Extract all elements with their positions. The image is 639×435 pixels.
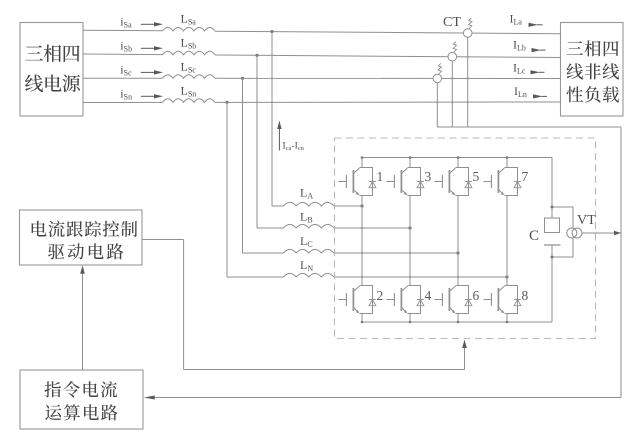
- capacitor C (DC link): [544, 218, 561, 245]
- inductor LSn: [163, 99, 216, 103]
- svg-text:7: 7: [522, 169, 529, 184]
- wire: phase n tap vertical: [226, 102, 228, 277]
- IGBT switch 6 with antiparallel diode: [435, 286, 480, 314]
- wire: leg 3 middle: [457, 196, 459, 286]
- wire: VT output to signal bus: [582, 231, 621, 235]
- label ILn with arrow: [514, 84, 547, 99]
- voltage transducer VT: [567, 228, 582, 238]
- wire: phase c line, inductor to load: [215, 77, 561, 79]
- inductor LSc: [163, 75, 216, 79]
- node: tap junction on phase n: [225, 101, 228, 104]
- node: tap junction on phase b: [255, 54, 258, 57]
- label LA: [300, 186, 313, 201]
- node: tap junction on phase c: [241, 77, 244, 80]
- label iSn with arrow: [120, 86, 163, 101]
- node: leg 2 rail junctions: [409, 156, 412, 323]
- wire: leg 1 bottom stub: [361, 314, 363, 323]
- wire: phase n line, source to inductor: [83, 101, 163, 103]
- wire: phase c tap vertical: [242, 78, 244, 253]
- box: three-phase four-wire nonlinear load (三相四线非线性负载): [561, 23, 624, 117]
- wire: gate drive into converter with arrow: [462, 340, 467, 370]
- node: leg 3 midpoint junction: [456, 251, 459, 254]
- node: leg 4 midpoint junction: [505, 275, 508, 278]
- node: leg 1 rail junctions: [361, 156, 364, 323]
- wire: feedback line into command circuit: [144, 396, 621, 400]
- wire: drive output along bottom: [184, 369, 465, 371]
- label iSc with arrow: [120, 62, 163, 77]
- svg-text:5: 5: [473, 169, 480, 184]
- wire: DC top rail: [362, 157, 552, 159]
- label iSb with arrow: [120, 38, 163, 53]
- wire: leg 1 top stub: [361, 158, 363, 168]
- node: leg 1 midpoint junction: [360, 204, 363, 207]
- wire: phase b tap vertical: [256, 55, 258, 228]
- wire: filter row 2 to bridge leg 2: [334, 227, 410, 229]
- label VT: [577, 213, 596, 228]
- wire: phase b tap to filter inductor: [257, 227, 284, 229]
- wire: CT c secondary drop: [436, 83, 438, 127]
- svg-text:1: 1: [377, 169, 384, 184]
- wire: filter row 4 to bridge leg 4: [334, 276, 507, 278]
- wire: phase a line, inductor to load: [215, 31, 561, 34]
- label C: [529, 228, 539, 244]
- wire: phase c line, source to inductor: [83, 77, 163, 79]
- wire: VT sensing branch: [552, 207, 573, 257]
- arrow: compensation current ica-icn: [277, 121, 281, 151]
- svg-text:4: 4: [425, 288, 432, 303]
- svg-text:VT: VT: [577, 213, 596, 228]
- wire: leg 4 bottom stub: [506, 314, 508, 323]
- wire: phase a tap to filter inductor: [272, 205, 284, 207]
- node: leg 2 midpoint junction: [408, 226, 411, 229]
- label ILb with arrow: [513, 37, 546, 52]
- node: tap junction on phase a: [270, 30, 273, 33]
- wire: leg 2 bottom stub: [409, 314, 411, 323]
- label LSn: [181, 84, 197, 99]
- dashed box: four-leg converter (APF power stage): [335, 138, 596, 339]
- current transformer CT phase b: [448, 42, 457, 61]
- wire: leg 3 bottom stub: [457, 314, 459, 323]
- label LSb: [181, 36, 197, 51]
- box: command current calculation circuit (指令电流运算电路): [20, 370, 143, 429]
- wire: command circuit to drive circuit with arrow: [80, 265, 85, 370]
- inductor LSa: [163, 27, 216, 31]
- IGBT switch 7 with antiparallel diode: [484, 168, 529, 196]
- IGBT switch 1 with antiparallel diode: [339, 168, 384, 196]
- box: current tracking control drive circuit (电流跟踪控制驱动电路): [20, 210, 143, 265]
- wire: leg 4 top stub: [506, 158, 508, 168]
- label ILa with arrow: [510, 12, 543, 27]
- node: VT branch taps on bus: [551, 206, 554, 259]
- label LC: [300, 234, 313, 249]
- wire: drive circuit output horizontal: [142, 239, 184, 241]
- current transformer CT phase c: [433, 63, 442, 82]
- wire: phase b line, inductor to load: [215, 55, 561, 58]
- IGBT switch 3 with antiparallel diode: [387, 168, 432, 196]
- label LSc: [181, 60, 197, 75]
- node: leg 4 rail junctions: [506, 156, 509, 323]
- wire: phase a tap vertical: [271, 32, 273, 206]
- wire: CT a secondary drop: [467, 37, 469, 127]
- label CT: [443, 15, 461, 30]
- inductor LA: [284, 202, 334, 206]
- svg-text:2: 2: [377, 288, 384, 303]
- wire: signal bus down right side: [620, 127, 622, 398]
- wire: drive output down: [183, 240, 185, 370]
- IGBT switch 4 with antiparallel diode: [387, 286, 432, 314]
- label LSa: [181, 12, 197, 27]
- wire: leg 1 middle: [361, 196, 363, 286]
- label ILc with arrow: [513, 61, 545, 76]
- box: three-phase four-wire power source (三相四线电源): [20, 23, 83, 117]
- node: leg 3 rail junctions: [457, 156, 460, 323]
- inductor LSb: [163, 51, 216, 55]
- wire: DC bottom rail: [362, 321, 552, 323]
- wire: leg 4 middle: [506, 196, 508, 286]
- wire: phase c tap to filter inductor: [243, 252, 284, 254]
- junction marks where rows cross legs: [361, 227, 459, 278]
- wire: phase a line, source to inductor: [83, 29, 163, 32]
- wire: DC right bus lower: [551, 245, 553, 322]
- svg-text:8: 8: [522, 288, 529, 303]
- wire: CT b secondary drop: [451, 61, 453, 127]
- svg-text:C: C: [529, 228, 539, 244]
- label LB: [300, 210, 313, 225]
- wire: leg 3 top stub: [457, 158, 459, 168]
- wire: leg 2 top stub: [409, 158, 411, 168]
- wire: filter row 1 to bridge leg 1: [334, 205, 362, 207]
- wire: DC right bus upper: [551, 158, 553, 219]
- wire: CT secondary bundle horizontal: [437, 126, 621, 128]
- junction marks where taps cross phase lines: [241, 54, 468, 103]
- wire: phase n line, inductor to load: [215, 101, 561, 103]
- svg-text:3: 3: [425, 169, 432, 184]
- wire: filter row 3 to bridge leg 3: [334, 252, 458, 254]
- IGBT switch 2 with antiparallel diode: [339, 286, 384, 314]
- label LN: [300, 258, 313, 273]
- svg-text:CT: CT: [443, 15, 461, 30]
- inductor LB: [284, 224, 334, 228]
- inductor LN: [284, 273, 334, 277]
- svg-text:6: 6: [473, 288, 480, 303]
- wire: phase n tap to filter inductor: [227, 276, 284, 278]
- IGBT switch 5 with antiparallel diode: [435, 168, 480, 196]
- IGBT switch 8 with antiparallel diode: [484, 286, 529, 314]
- label Ica-Icn: [283, 142, 305, 153]
- inductor LC: [284, 249, 334, 253]
- wire: phase b line, source to inductor: [83, 53, 163, 56]
- wire: leg 2 middle: [409, 196, 411, 286]
- label iSa with arrow: [120, 14, 163, 29]
- current transformer CT phase a: [463, 18, 472, 37]
